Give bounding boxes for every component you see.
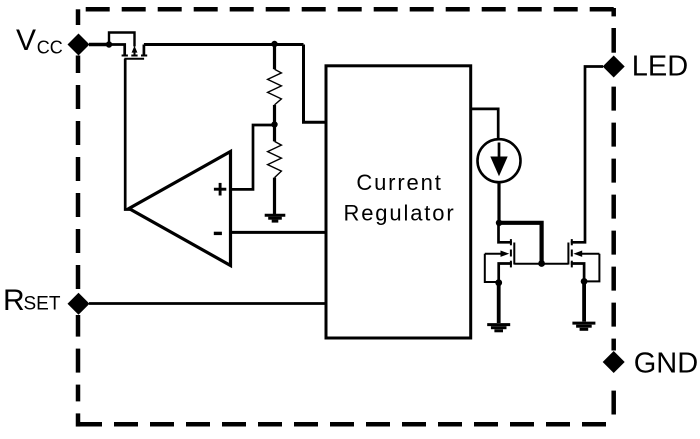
wire LED pin down to Q3 drain [571, 67, 603, 243]
resistor R1 zigzag [268, 69, 282, 105]
ground symbol under Q2 [487, 325, 510, 331]
wire node G to ground [582, 281, 586, 321]
current source I1 circle [478, 139, 521, 182]
pin GND diamond [603, 351, 625, 373]
resistor R2 top lead [273, 125, 276, 142]
svg-text:Current: Current [356, 170, 442, 195]
svg-text:V: V [16, 24, 36, 57]
wire corner down to regulator box [304, 45, 327, 123]
svg-text:SET: SET [24, 294, 61, 315]
current source I1 arrow stem [498, 143, 501, 173]
transistor Q3 gate plate [567, 243, 569, 265]
op-amp plus sign [214, 183, 226, 196]
svg-text:GND: GND [634, 347, 698, 379]
IC boundary dashed border left [76, 9, 81, 426]
wire op-amp minus input to regulator box [231, 231, 327, 234]
transistor Q3 bulk arrow lead [581, 253, 600, 255]
wire node D to gate node (thick) [499, 223, 542, 264]
transistor Q3 bulk arrow head [573, 251, 582, 257]
resistor R1 bottom lead [273, 105, 276, 125]
node F junction dot [495, 279, 502, 286]
wire RSET pin to regulator box [89, 302, 326, 305]
resistor R2 bottom lead [273, 178, 276, 214]
node E gate junction dot [538, 260, 545, 267]
wire Q2 bulk return [485, 254, 499, 282]
resistor R2 zigzag [268, 141, 282, 177]
wire Q1 drain up [143, 45, 146, 56]
svg-text:CC: CC [37, 38, 63, 58]
transistor Q2 bulk arrow head [501, 251, 510, 257]
op-amp minus sign [214, 232, 222, 235]
wire Q3 source to node G [571, 264, 584, 282]
pin RSET diamond [68, 293, 90, 315]
current source I1 arrow head [490, 157, 507, 177]
svg-text:LED: LED [632, 51, 688, 83]
node C junction dot [271, 121, 277, 127]
node B junction dot [271, 41, 277, 47]
transistor Q1 source contact bar [122, 55, 128, 57]
pin LED diamond [603, 56, 625, 78]
transistor Q1 bulk contact bar [131, 55, 137, 57]
IC boundary dashed border top [76, 7, 616, 12]
IC boundary dashed border right [611, 8, 616, 415]
transistor Q1 drain contact bar [141, 55, 147, 57]
wire Q3 bulk return [584, 254, 599, 282]
transistor Q1 bulk stem [134, 52, 136, 56]
wire node F to ground [497, 283, 501, 323]
transistor Q3 channel bars [571, 239, 573, 267]
wire I1 to node D [497, 182, 500, 223]
IC boundary dashed border bottom [78, 422, 616, 427]
wire node A to Q1 source [109, 45, 125, 56]
svg-text:R: R [3, 284, 25, 317]
transistor Q1 gate plate [124, 58, 144, 60]
wire Q1 bulk loop [109, 33, 135, 47]
wire gate line Q2 to Q3 [514, 263, 568, 265]
op-amp U1 triangle [129, 152, 231, 266]
node A junction dot [106, 41, 112, 47]
node G junction dot [581, 278, 588, 285]
resistor R1 top lead [273, 44, 276, 69]
ground symbol under Q3 [572, 323, 595, 329]
transistor Q2 channel bars [510, 239, 512, 267]
svg-text:Regulator: Regulator [343, 200, 455, 225]
current regulator box [326, 66, 471, 338]
wire Q2 drain to node D [499, 223, 512, 243]
transistor Q2 gate plate [513, 243, 515, 265]
wire Q2 source to node F [499, 264, 512, 283]
transistor Q1 bulk arrow [132, 46, 138, 53]
wire node C to op-amp plus input [231, 125, 275, 189]
transistor Q2 bulk arrow lead [485, 253, 502, 255]
wire Q1 drain to corner [144, 43, 304, 46]
wire Q1 gate to op-amp output [125, 59, 131, 210]
node D junction dot [496, 220, 502, 226]
wire regulator box to current source I1 [471, 109, 499, 139]
pin VCC diamond [68, 34, 90, 56]
wire VCC pin to node A [89, 43, 109, 47]
ground symbol under R2 [265, 215, 286, 221]
